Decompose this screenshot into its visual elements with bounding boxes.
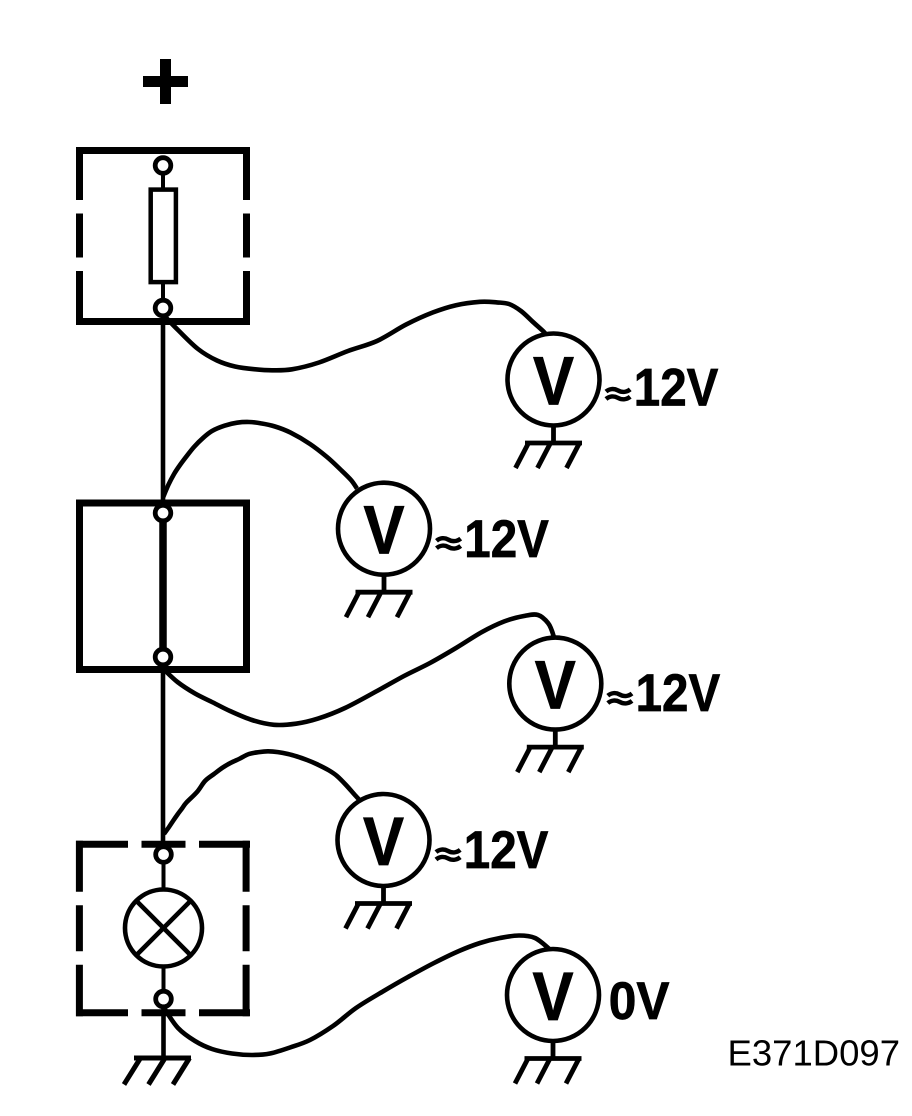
svg-text:12V: 12V: [634, 359, 719, 418]
wire (lamp bottom node to ground): [161, 999, 166, 1058]
ground (main circuit ground): [124, 1058, 191, 1085]
voltmeter V5: [507, 949, 599, 1041]
node (fuse top terminal): [155, 158, 171, 174]
svg-text:12V: 12V: [636, 664, 721, 723]
lamp unit box (dashed enclosure): [76, 841, 250, 1017]
voltmeter V4: [338, 794, 430, 886]
node (lamp top terminal): [156, 847, 172, 863]
switch unit box (solid enclosure): [80, 503, 247, 670]
label ≈12V (voltmeter V4): [436, 821, 548, 880]
voltmeter V3: [509, 638, 601, 730]
node (switch top terminal): [155, 505, 171, 521]
node (switch bottom terminal): [155, 649, 171, 665]
battery positive terminal (+): [143, 59, 188, 104]
ground (voltmeter V1): [516, 426, 583, 469]
fuse element F1: [151, 174, 176, 300]
node (lamp bottom terminal): [156, 991, 172, 1007]
voltmeter V2: [338, 483, 430, 575]
wire (probe curve: lamp output to voltmeter V5): [164, 936, 550, 1056]
wire (fuse bottom node to switch box): [161, 308, 166, 513]
svg-text:12V: 12V: [464, 510, 549, 569]
lamp L1 (circle with cross): [125, 862, 202, 994]
svg-text:0V: 0V: [609, 972, 670, 1031]
label ≈12V (voltmeter V3): [608, 664, 720, 723]
wire (probe curve: fuse output to voltmeter V1): [164, 302, 551, 371]
node (fuse bottom terminal): [155, 300, 171, 316]
wire (switch bottom node to lamp box): [161, 657, 166, 855]
svg-text:E371D097: E371D097: [728, 1033, 901, 1074]
ground (voltmeter V2): [346, 575, 413, 618]
ground (voltmeter V4): [346, 886, 413, 929]
wire (probe curve: lamp input to voltmeter V4): [164, 751, 360, 834]
wire (probe curve: switch input to voltmeter V2): [163, 422, 357, 498]
label ≈12V (voltmeter V2): [437, 510, 549, 569]
switch contact bar S1: [159, 513, 167, 657]
ground (voltmeter V5): [515, 1041, 582, 1084]
wire (probe curve: switch output to voltmeter V3): [164, 614, 555, 725]
fuse unit box (dashed enclosure): [76, 147, 250, 325]
svg-text:12V: 12V: [464, 821, 549, 880]
voltmeter V1: [508, 334, 600, 426]
label ≈12V (voltmeter V1): [606, 359, 718, 418]
ground (voltmeter V3): [517, 730, 584, 773]
